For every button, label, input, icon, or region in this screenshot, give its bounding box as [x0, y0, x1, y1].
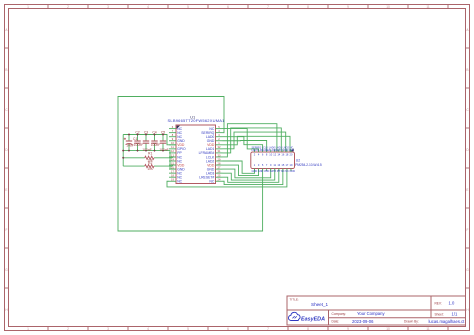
- svg-text:8: 8: [307, 327, 309, 331]
- svg-text:10uF: 10uF: [126, 144, 134, 148]
- junction dots cap rails: [122, 133, 164, 159]
- connector U2 body: [251, 148, 295, 168]
- svg-text:11: 11: [426, 5, 430, 9]
- svg-text:PM254-2-10-W-6.5: PM254-2-10-W-6.5: [295, 163, 322, 167]
- svg-text:10: 10: [386, 5, 390, 9]
- U2 net labels below: [252, 170, 296, 173]
- svg-text:R2: R2: [148, 161, 152, 165]
- svg-text:4: 4: [147, 327, 149, 331]
- wire R1 row: [123, 156, 176, 159]
- U1 designator and part number: [168, 114, 226, 122]
- svg-text:3: 3: [107, 5, 109, 9]
- U1 pins left: [169, 125, 186, 184]
- svg-text:B: B: [5, 68, 7, 72]
- capacitor C2: [134, 130, 143, 150]
- svg-text:REV:: REV:: [435, 301, 442, 305]
- svg-text:100nF: 100nF: [159, 148, 168, 152]
- svg-text:EasyEDA: EasyEDA: [301, 316, 325, 322]
- svg-text:10K: 10K: [147, 167, 154, 171]
- svg-text:6: 6: [227, 5, 229, 9]
- svg-text:5: 5: [187, 5, 189, 9]
- svg-text:F: F: [6, 228, 8, 232]
- wire U1 right row4 to U2 top pin: [223, 141, 267, 153]
- title block texts: [290, 298, 466, 324]
- svg-text:1: 1: [27, 327, 29, 331]
- wire U1 right row11 to U2 bottom pin: [223, 169, 271, 178]
- wire cap left rail: [122, 135, 124, 167]
- svg-text:Date:: Date:: [332, 320, 340, 324]
- wire U1 right row9 to U2 bottom pin: [223, 161, 255, 173]
- capacitor C5: [159, 130, 168, 152]
- svg-text:1/1: 1/1: [452, 311, 458, 316]
- wire U1 right row7 to U2 top pin: [223, 128, 282, 153]
- resistor R1: [145, 152, 154, 163]
- svg-text:E: E: [466, 188, 468, 192]
- svg-text:6: 6: [227, 327, 229, 331]
- EasyEDA logo: [288, 312, 325, 322]
- svg-text:Sheet:: Sheet:: [435, 312, 444, 316]
- wire big loop U1 right pin row2 around left and bottom to U2: [118, 97, 263, 232]
- svg-text:GND GND VDD GPIO PP NC NC GND: GND GND VDD GPIO PP NC NC GND: [252, 170, 296, 173]
- resistor R2: [145, 161, 154, 171]
- svg-text:5: 5: [187, 327, 189, 331]
- svg-text:3: 3: [107, 327, 109, 331]
- wire U1 right row12 to U2 bottom pin: [223, 169, 275, 181]
- U2 pin stubs top: [255, 150, 291, 153]
- wire U1 right row1 to U2 top pin: [223, 129, 259, 152]
- svg-text:Your Company: Your Company: [357, 311, 385, 316]
- svg-text:1.0: 1.0: [449, 301, 455, 306]
- wire cap bottom GND rail: [123, 151, 176, 170]
- title block: [287, 296, 466, 325]
- svg-text:TITLE:: TITLE:: [290, 298, 299, 302]
- svg-text:LAD3 LFRAME# LRESET# VDD GND: LAD3 LFRAME# LRESET# VDD GND: [252, 149, 295, 152]
- capacitor C4: [151, 130, 160, 150]
- capacitor C3: [142, 130, 151, 152]
- svg-text:9: 9: [347, 327, 349, 331]
- svg-text:NC: NC: [209, 180, 214, 184]
- svg-text:Company:: Company:: [332, 312, 347, 316]
- wire U1 right row6 to U2 top pin: [223, 132, 286, 152]
- svg-text:7: 7: [267, 327, 269, 331]
- svg-text:10: 10: [386, 327, 390, 331]
- wire U1 right row14 to U2 bottom pin: [223, 169, 283, 185]
- wire U1 left row14 routed under body to U2: [167, 169, 287, 187]
- svg-text:11: 11: [426, 327, 430, 331]
- svg-text:lucas.magalhaes.ct: lucas.magalhaes.ct: [429, 319, 466, 324]
- svg-text:SLB9665TT20FW562XUMA1: SLB9665TT20FW562XUMA1: [168, 118, 226, 123]
- U2 pin numbers top row: [254, 153, 293, 157]
- U2 designator and part number: [295, 158, 322, 167]
- svg-text:2023-09-06: 2023-09-06: [352, 319, 374, 324]
- wire U1 right row10 to U2 bottom pin: [223, 165, 259, 176]
- capacitor C1: [124, 135, 138, 151]
- wire U1 right row3 to U2 top pin: [223, 137, 263, 152]
- svg-text:E: E: [5, 188, 7, 192]
- wire R2 row: [123, 165, 176, 166]
- wire U1 right row8 to U2 top pin: [223, 124, 277, 157]
- svg-text:7: 7: [267, 5, 269, 9]
- svg-text:B: B: [466, 68, 468, 72]
- svg-text:2: 2: [67, 5, 69, 9]
- svg-text:U2: U2: [296, 158, 300, 162]
- U2 net labels above: [252, 147, 295, 153]
- svg-text:NC: NC: [177, 180, 182, 184]
- svg-text:100nF: 100nF: [134, 143, 143, 147]
- U2 pin stubs bottom: [255, 169, 291, 172]
- svg-text:Drawn By:: Drawn By:: [404, 320, 419, 324]
- svg-text:4: 4: [147, 5, 149, 9]
- svg-text:9: 9: [347, 5, 349, 9]
- U1 pins right: [199, 125, 223, 184]
- U2 pin numbers bottom row: [254, 163, 293, 167]
- svg-text:1: 1: [27, 5, 29, 9]
- svg-text:R1: R1: [148, 152, 152, 156]
- svg-text:8: 8: [307, 5, 309, 9]
- svg-text:F: F: [467, 228, 469, 232]
- svg-text:Sheet_1: Sheet_1: [311, 302, 329, 307]
- svg-text:100nF: 100nF: [151, 143, 160, 147]
- wire U1 right row5 to U2 top pin: [223, 136, 291, 152]
- wire U1 right row13 to U2 bottom pin: [223, 169, 279, 183]
- svg-text:2: 2: [67, 327, 69, 331]
- op IC U1 body: [176, 125, 216, 184]
- wire cap top VDD rail: [123, 135, 176, 145]
